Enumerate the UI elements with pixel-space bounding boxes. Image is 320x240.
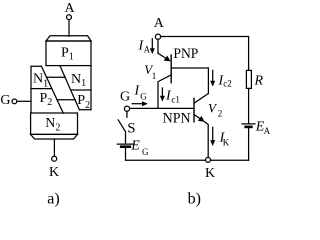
wire EA to bottom rail bbox=[248, 128, 250, 160]
wire G input to V2 base bbox=[130, 107, 194, 109]
svg-text:NPN: NPN bbox=[163, 111, 191, 127]
current arrow Ic1 bbox=[160, 88, 165, 102]
transistor V2 base bar bbox=[193, 98, 195, 121]
wire R to EA bbox=[248, 88, 250, 123]
transistor V2 emitter diagonal bbox=[194, 115, 200, 119]
current arrow Ic2 bbox=[210, 70, 215, 86]
layer N1 left column outline bbox=[31, 66, 63, 113]
layer N2 box front face bbox=[31, 113, 78, 134]
node K (circuit) terminal circle bbox=[206, 157, 211, 162]
svg-text:V: V bbox=[208, 101, 218, 116]
transistor V1 emitter arrowhead (PNP, into base) bbox=[164, 56, 171, 62]
svg-text:c2: c2 bbox=[223, 78, 232, 88]
battery EG short plate bbox=[121, 145, 130, 148]
wire V2 emitter to K bbox=[205, 122, 209, 157]
wire EG to bottom rail bbox=[125, 148, 127, 161]
svg-text:c1: c1 bbox=[171, 94, 180, 104]
junction line N1/P2 right column bbox=[71, 89, 91, 91]
bottom edge P2 right column bbox=[79, 109, 91, 111]
svg-text:A: A bbox=[154, 16, 165, 31]
resistor R body bbox=[246, 70, 251, 88]
transistor V2 collector diagonal bbox=[194, 94, 208, 104]
diagonal cut right edge d2 bbox=[60, 66, 80, 110]
node A (circuit) terminal circle bbox=[155, 34, 160, 39]
svg-text:K: K bbox=[49, 165, 59, 180]
junction line on cut face lower bbox=[57, 99, 75, 101]
svg-text:1: 1 bbox=[152, 71, 157, 81]
transistor V1 base bar bbox=[170, 55, 172, 83]
svg-text:b): b) bbox=[188, 191, 201, 208]
node A (structure) terminal circle bbox=[67, 15, 72, 20]
svg-text:E: E bbox=[130, 138, 140, 153]
node G (circuit) terminal circle bbox=[124, 106, 129, 111]
current arrow IG bbox=[132, 101, 148, 106]
svg-text:R: R bbox=[254, 74, 264, 89]
node K (structure) terminal circle bbox=[52, 156, 57, 161]
svg-text:G: G bbox=[0, 93, 10, 108]
right column right edge bbox=[90, 66, 92, 110]
svg-text:P2: P2 bbox=[40, 91, 53, 108]
svg-text:PNP: PNP bbox=[173, 46, 198, 62]
svg-text:S: S bbox=[127, 120, 135, 136]
wire G terminal down to switch bbox=[126, 111, 128, 117]
battery EG long plate bbox=[117, 143, 132, 145]
svg-text:G: G bbox=[120, 90, 130, 105]
junction line on cut face upper bbox=[47, 76, 66, 78]
layer P1 box front face bbox=[46, 41, 91, 66]
wire bottom rail bbox=[126, 159, 248, 161]
svg-text:2: 2 bbox=[218, 109, 223, 119]
svg-text:a): a) bbox=[47, 191, 59, 208]
svg-text:G: G bbox=[142, 147, 149, 157]
battery EA short plate bbox=[246, 126, 252, 129]
svg-text:N1: N1 bbox=[71, 72, 86, 89]
switch S blade bbox=[118, 120, 125, 132]
wire V1 base to corner bbox=[171, 68, 208, 94]
wire top rail A to R bbox=[161, 37, 249, 71]
svg-text:A: A bbox=[264, 126, 271, 136]
current arrow IA bbox=[150, 39, 155, 54]
svg-text:K: K bbox=[205, 166, 215, 181]
node G (structure) terminal circle bbox=[12, 99, 17, 104]
wire switch to EG bbox=[125, 132, 127, 144]
layer N2 box bottom face bbox=[31, 134, 78, 139]
wire K lead bbox=[53, 139, 55, 156]
svg-text:A: A bbox=[144, 44, 151, 54]
svg-text:N2: N2 bbox=[45, 116, 60, 133]
junction line N1/P2 left column bbox=[31, 88, 52, 90]
battery EA long plate bbox=[242, 123, 255, 125]
transistor V1 collector diagonal bbox=[158, 75, 171, 109]
current arrow IK bbox=[210, 127, 215, 146]
svg-text:G: G bbox=[140, 91, 147, 101]
transistor V1 emitter diagonal bbox=[158, 53, 166, 58]
svg-text:A: A bbox=[65, 1, 76, 16]
layer P1 box top face bbox=[46, 36, 91, 41]
wire A lead to P1 bbox=[68, 20, 70, 37]
svg-text:K: K bbox=[223, 138, 230, 148]
wire G lead (structure) bbox=[17, 100, 31, 102]
wire A down to V1 emitter bbox=[157, 39, 159, 53]
svg-text:P1: P1 bbox=[61, 45, 74, 62]
transistor V2 emitter arrowhead (NPN, outward) bbox=[198, 116, 205, 122]
